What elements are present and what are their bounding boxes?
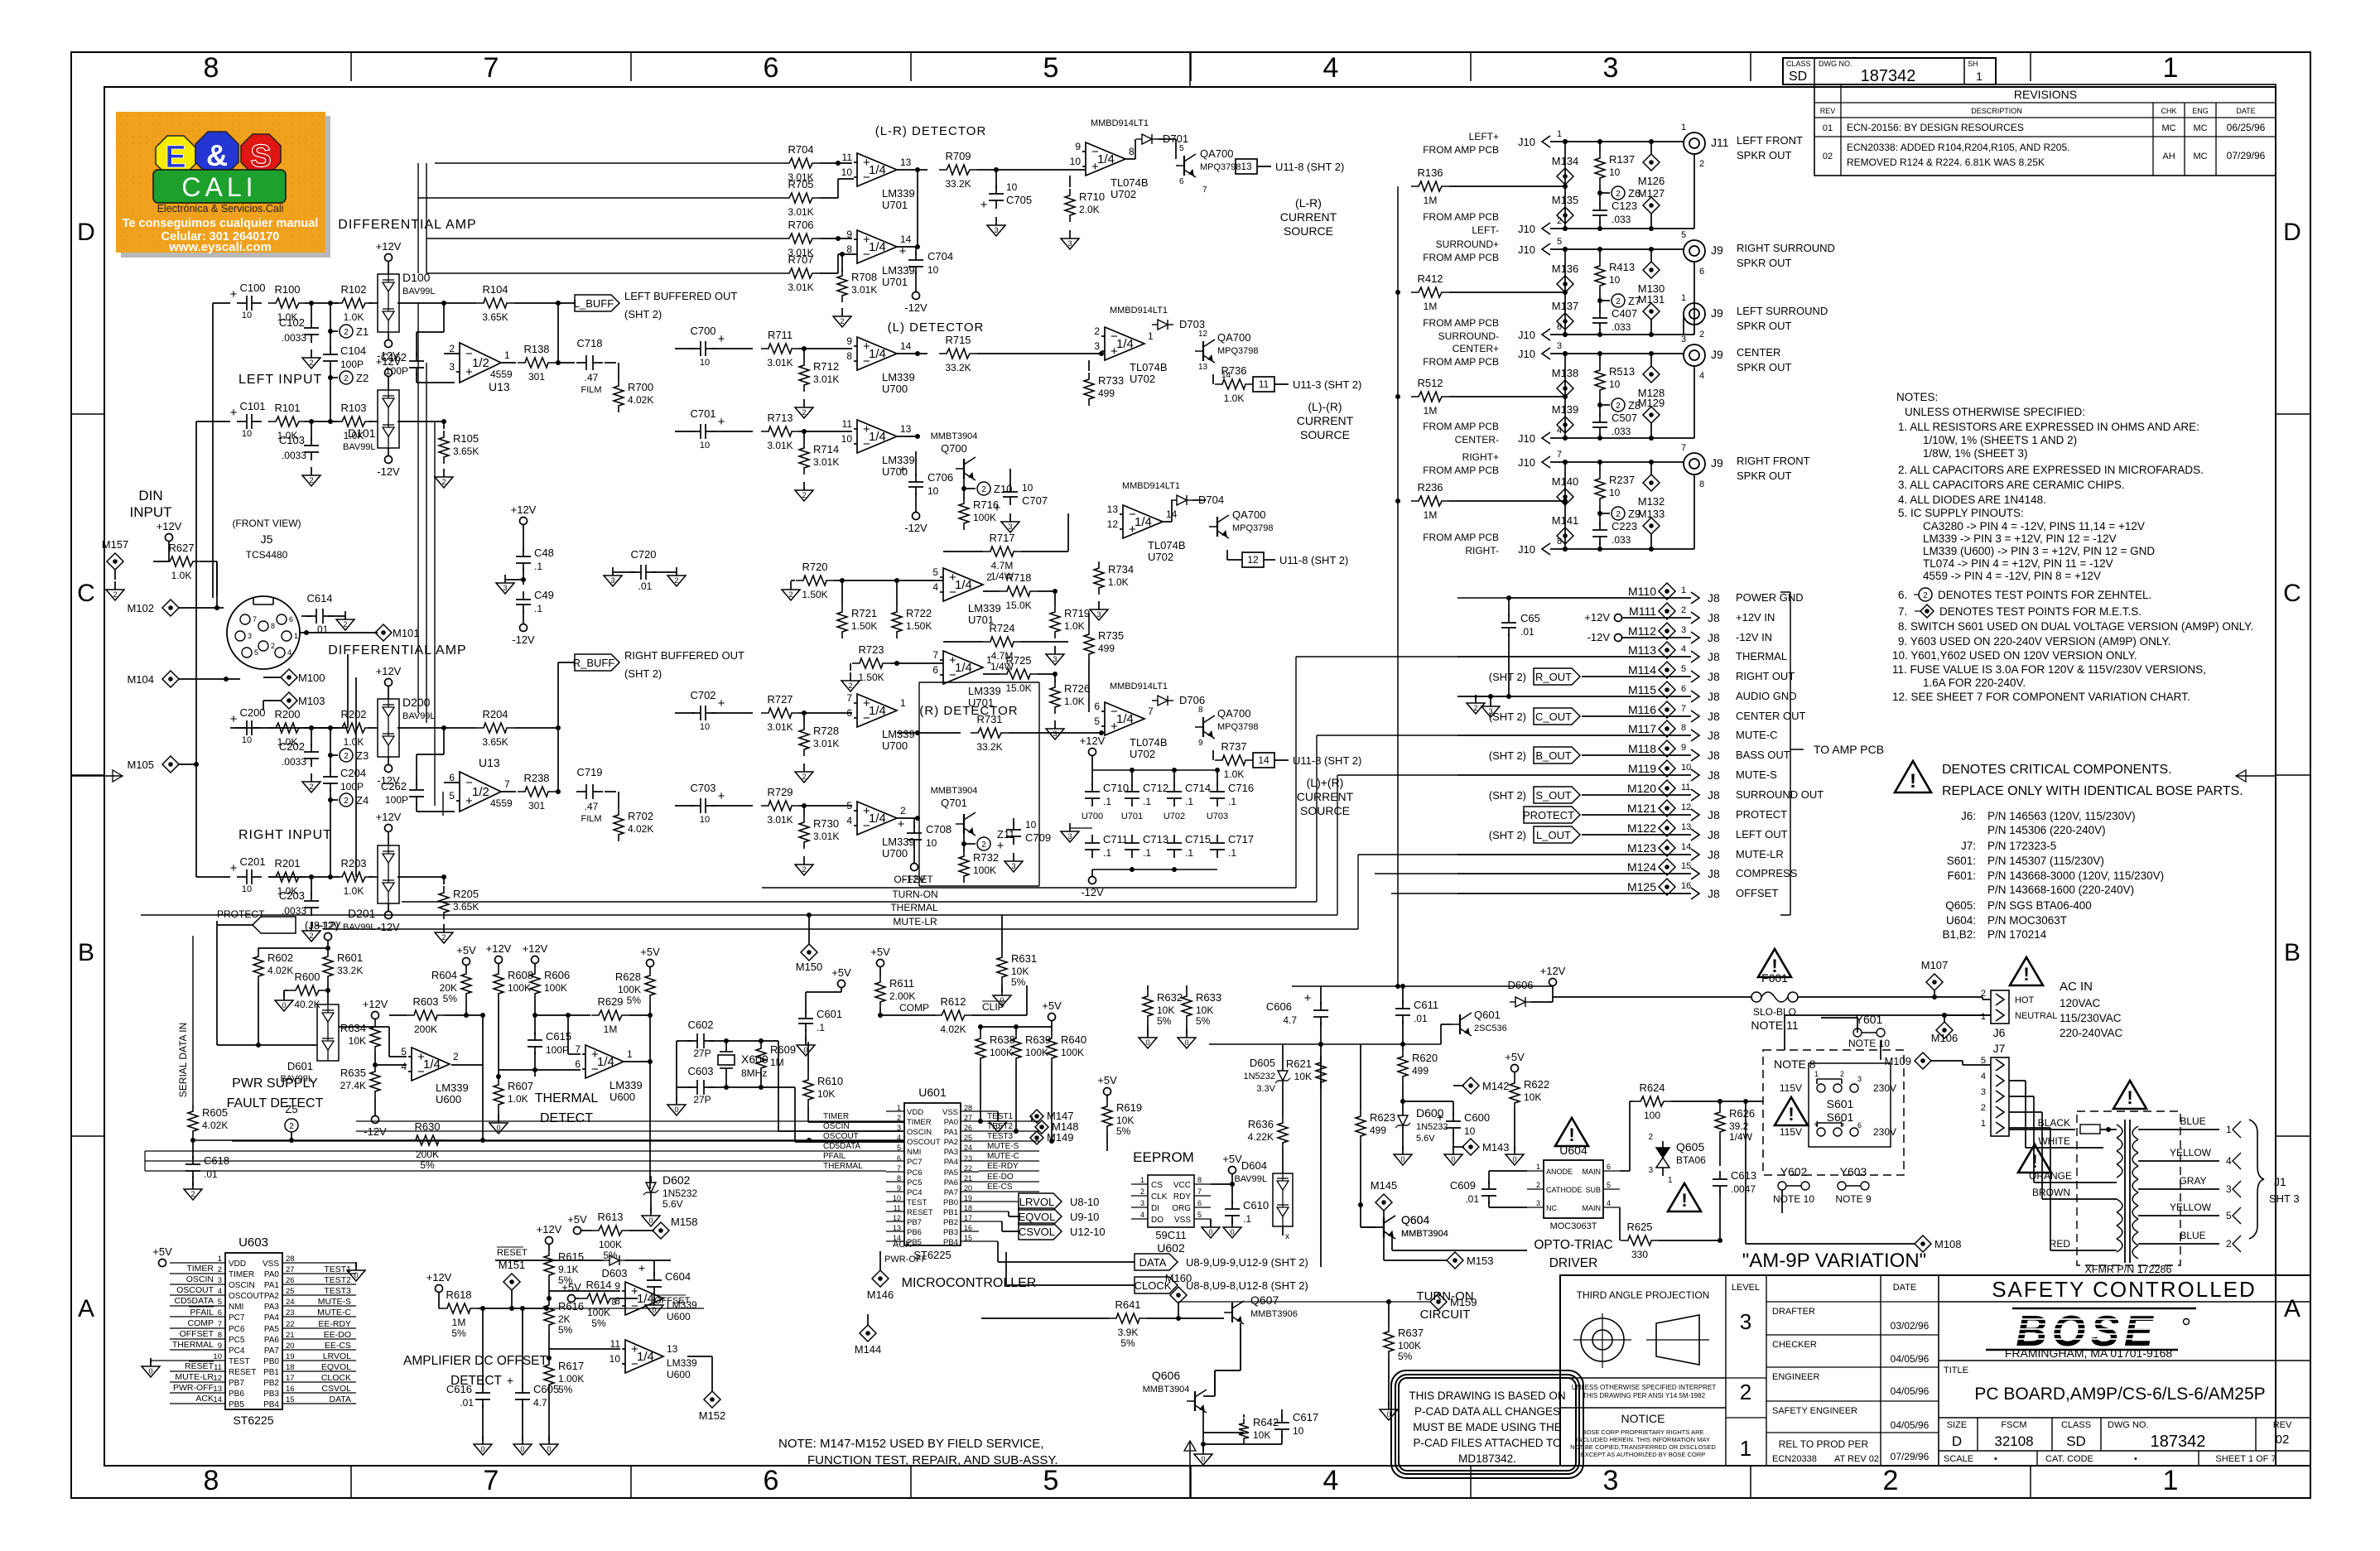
svg-text:OSCOUT: OSCOUT: [176, 1285, 214, 1295]
svg-text:9: 9: [846, 335, 852, 347]
svg-text:C701: C701: [690, 407, 715, 420]
capacitor C103: [279, 421, 319, 461]
svg-text:8: 8: [611, 1298, 616, 1308]
svg-text:PB7: PB7: [229, 1379, 244, 1388]
svg-text:10: 10: [1293, 1425, 1304, 1437]
svg-text:D605: D605: [1250, 1057, 1275, 1069]
svg-text:M136: M136: [1552, 263, 1579, 275]
svg-text:.1: .1: [534, 603, 542, 614]
svg-text:7: 7: [484, 1465, 499, 1496]
svg-text:.01: .01: [1414, 1013, 1428, 1024]
svg-text:M133: M133: [1638, 508, 1665, 520]
resistor R716: [959, 489, 999, 530]
svg-text:S_OUT: S_OUT: [1535, 789, 1571, 802]
svg-text:+12V: +12V: [157, 520, 182, 532]
resistor R724: [943, 622, 1068, 672]
svg-text:PC7: PC7: [907, 1158, 922, 1167]
svg-text:C507: C507: [1612, 412, 1637, 424]
svg-text:R609: R609: [770, 1043, 796, 1056]
svg-text:+12V IN: +12V IN: [1736, 611, 1775, 624]
svg-text:22: 22: [286, 1320, 295, 1329]
svg-text:&: &: [206, 138, 228, 172]
svg-text:TL074 -> PIN 4 = +12V, PIN 11: TL074 -> PIN 4 = +12V, PIN 11 = -12V: [1923, 557, 2113, 570]
svg-text:2. ALL CAPACITORS ARE EXPRESSE: 2. ALL CAPACITORS ARE EXPRESSED IN MICRO…: [1898, 464, 2204, 476]
svg-text:LEFT BUFFERED OUT: LEFT BUFFERED OUT: [624, 290, 737, 302]
svg-text:TIMER: TIMER: [186, 1264, 214, 1274]
svg-text:R_BUFF: R_BUFF: [573, 657, 615, 669]
svg-text:2: 2: [802, 865, 806, 874]
svg-text:16: 16: [964, 1224, 972, 1232]
ground at U603 TEST: [142, 1358, 170, 1377]
svg-text:EEPROM: EEPROM: [1133, 1149, 1194, 1165]
svg-text:+12V: +12V: [1540, 965, 1566, 977]
capacitor C700: [675, 325, 753, 368]
svg-text:1: 1: [897, 1104, 901, 1112]
resistor R615: [544, 1249, 584, 1301]
svg-text:10K: 10K: [1116, 1115, 1134, 1126]
svg-text:200K: 200K: [416, 1149, 439, 1160]
wire R412 to rows: [1563, 247, 1568, 337]
svg-text:M120: M120: [1627, 782, 1656, 795]
capacitor C613: [1713, 1169, 1756, 1240]
svg-text:J7: J7: [1993, 1042, 2006, 1055]
resistor R709: [918, 150, 1086, 190]
svg-text:CATHODE: CATHODE: [1546, 1186, 1582, 1194]
svg-text:8: 8: [271, 622, 275, 630]
wires S601 risers: [1821, 1018, 1881, 1060]
capacitor C712: [1125, 770, 1168, 807]
svg-text:R412: R412: [1417, 272, 1443, 285]
label feed RIGHT FRONT: [1423, 451, 1499, 556]
svg-text:CALI: CALI: [181, 172, 257, 202]
svg-text:CSVOL: CSVOL: [321, 1384, 351, 1394]
svg-text:J10: J10: [1518, 456, 1535, 469]
net flag PROTECT to J8: [1523, 807, 1580, 823]
svg-text:SAFETY ENGINEER: SAFETY ENGINEER: [1772, 1406, 1857, 1416]
svg-text:M138: M138: [1552, 367, 1579, 379]
test point M134: [1552, 155, 1579, 185]
svg-text:3: 3: [1981, 1087, 1986, 1097]
resistor R602: [253, 948, 293, 1048]
svg-text:BTA06: BTA06: [1676, 1154, 1706, 1166]
svg-text:CA3280 -> PIN 4 = -12V, PINS 1: CA3280 -> PIN 4 = -12V, PINS 11,14 = +12…: [1923, 520, 2145, 532]
svg-text:0: 0: [547, 1445, 551, 1453]
svg-text:DWG NO.: DWG NO.: [2108, 1420, 2149, 1430]
svg-text:5%: 5%: [443, 993, 458, 1004]
svg-text:PA7: PA7: [264, 1346, 280, 1356]
label TURN-ON CIRCUIT: [1416, 1289, 1473, 1322]
svg-text:LEFT+: LEFT+: [1469, 131, 1499, 142]
svg-text:12: 12: [1681, 802, 1691, 812]
net flag S_OUT to J8: [1489, 787, 1580, 803]
svg-text:TO AMP PCB: TO AMP PCB: [1814, 743, 1884, 756]
label OFFSET at R618: [547, 1295, 704, 1308]
svg-text:100K: 100K: [973, 865, 996, 876]
wires AC area: [1720, 1099, 1763, 1244]
svg-text:+: +: [718, 415, 725, 429]
svg-text:23: 23: [286, 1308, 295, 1317]
svg-text:R627: R627: [168, 542, 194, 554]
svg-text:U702: U702: [1164, 812, 1185, 821]
svg-text:R708: R708: [851, 271, 877, 283]
jumper Y601: [1848, 1013, 1890, 1049]
svg-text:PWR-OFF: PWR-OFF: [173, 1383, 214, 1393]
svg-text:D: D: [1952, 1433, 1962, 1449]
svg-text:4.7: 4.7: [1283, 1014, 1297, 1026]
svg-text:1/4: 1/4: [597, 1055, 614, 1069]
svg-text:FAULT DETECT: FAULT DETECT: [227, 1096, 324, 1110]
svg-text:9: 9: [897, 1184, 901, 1192]
svg-text:1/2: 1/2: [472, 785, 489, 799]
svg-text:+5V: +5V: [152, 1245, 172, 1258]
svg-text:COMP: COMP: [899, 1002, 929, 1014]
svg-text:1N5232: 1N5232: [1243, 1072, 1275, 1081]
capacitor C609: [1450, 1171, 1527, 1207]
svg-text:100K: 100K: [1025, 1047, 1048, 1058]
notice cell: [1570, 1412, 1716, 1458]
svg-text:3: 3: [1740, 1309, 1751, 1334]
connector J8 pin 16 OFFSET: [1457, 879, 1778, 900]
zener D605: [1243, 1044, 1290, 1116]
comparator U701 A: [841, 152, 915, 211]
svg-text:FUNCTION TEST, REPAIR, AND SUB: FUNCTION TEST, REPAIR, AND SUB-ASSY.: [807, 1453, 1058, 1467]
svg-text:5: 5: [401, 1046, 407, 1057]
svg-text:3.01K: 3.01K: [813, 831, 839, 842]
fuse F601: [1553, 971, 1983, 1032]
svg-text:ENG: ENG: [2192, 107, 2209, 115]
svg-text:5: 5: [1043, 52, 1059, 84]
capacitor C708: [898, 817, 952, 885]
svg-text:D703: D703: [1179, 318, 1205, 330]
resistor R636: [1248, 1116, 1288, 1173]
diode D100: [378, 271, 436, 332]
svg-text:!: !: [1910, 770, 1916, 792]
+5V at U602: [1211, 1153, 1242, 1187]
+12V at D100: [376, 240, 402, 274]
resistor R705: [782, 178, 854, 218]
svg-text:1/4: 1/4: [1135, 515, 1152, 529]
svg-text:MPQ3798: MPQ3798: [1200, 162, 1241, 172]
resistor R617: [540, 1358, 584, 1455]
svg-text:04/05/96: 04/05/96: [1891, 1385, 1930, 1397]
svg-text:3: 3: [1096, 610, 1101, 619]
svg-text:FILM: FILM: [581, 385, 601, 395]
svg-text:C717: C717: [1228, 833, 1254, 845]
svg-text:J5: J5: [261, 532, 273, 546]
svg-text:5%: 5%: [591, 1317, 606, 1329]
capacitor C717: [1210, 833, 1254, 859]
svg-text:B1,B2:: B1,B2:: [1942, 928, 1976, 941]
svg-text:Q605:: Q605:: [1945, 899, 1976, 912]
svg-text:6: 6: [764, 52, 779, 84]
test point M148: [1035, 1120, 1079, 1134]
test point M135: [1552, 194, 1579, 224]
svg-text:C609: C609: [1450, 1179, 1476, 1192]
svg-text:+: +: [718, 789, 725, 803]
svg-text:XFMR P/N 172286: XFMR P/N 172286: [2085, 1264, 2172, 1275]
svg-text:PA1: PA1: [944, 1128, 958, 1137]
transistor Q607: [1224, 1293, 1298, 1324]
svg-text:J6:: J6:: [1961, 810, 1976, 822]
resistor R704: [782, 143, 852, 183]
svg-text:J8: J8: [1708, 670, 1720, 683]
svg-text:10: 10: [1070, 156, 1082, 167]
svg-text:8: 8: [1197, 1176, 1202, 1184]
svg-text:R736: R736: [1221, 364, 1246, 377]
capacitor C602: [677, 1019, 729, 1059]
svg-text:LM339: LM339: [882, 187, 915, 200]
svg-text:J8: J8: [1708, 749, 1720, 762]
svg-text:12: 12: [1107, 518, 1119, 530]
svg-text:R238: R238: [523, 772, 549, 784]
svg-text:15: 15: [286, 1395, 295, 1404]
wire osc to U601: [726, 1038, 904, 1142]
svg-text:LEFT INPUT: LEFT INPUT: [238, 373, 322, 387]
svg-text:.1: .1: [1243, 1213, 1251, 1225]
svg-text:6: 6: [1681, 684, 1686, 694]
-12V at D100: [377, 332, 400, 362]
svg-text:PC6: PC6: [907, 1168, 922, 1178]
svg-text:R640: R640: [1061, 1033, 1086, 1046]
svg-text:13: 13: [900, 423, 912, 435]
svg-text:2: 2: [981, 485, 986, 494]
svg-text:RIGHT SURROUND: RIGHT SURROUND: [1737, 242, 1835, 254]
svg-text:32108: 32108: [1994, 1433, 2033, 1449]
net flag L_OUT to J8: [1489, 826, 1580, 843]
svg-text:A: A: [78, 1295, 94, 1322]
svg-text:2: 2: [309, 932, 313, 940]
transistor QA700 (L): [1195, 330, 1259, 380]
capacitor C200: [230, 706, 266, 745]
svg-text:0: 0: [648, 1216, 653, 1225]
svg-text:(SHT 2): (SHT 2): [1489, 749, 1526, 762]
net flag CLOCK: [1006, 1252, 1308, 1293]
svg-text:C123: C123: [1612, 200, 1637, 212]
+12V feed at J8: [1584, 611, 1621, 624]
svg-text:Z1: Z1: [356, 325, 369, 338]
svg-text:+12V: +12V: [511, 503, 537, 516]
svg-text:REPLACE ONLY WITH IDENTICAL BO: REPLACE ONLY WITH IDENTICAL BOSE PARTS.: [1942, 784, 2243, 798]
net flag C_OUT to J8: [1489, 708, 1580, 725]
svg-text:1N5232: 1N5232: [662, 1187, 697, 1199]
svg-text:C201: C201: [239, 855, 265, 868]
svg-text:10: 10: [1464, 1125, 1476, 1137]
resistor R640: [1047, 1027, 1086, 1144]
svg-text:CSVOL: CSVOL: [1019, 1226, 1055, 1238]
svg-text:C719: C719: [576, 766, 602, 778]
warning triangle at U604: [1555, 1118, 1588, 1146]
test point M127: [1638, 187, 1665, 229]
svg-text:RESET: RESET: [185, 1361, 214, 1371]
notes text block: [1892, 391, 2253, 703]
zener D600: [1394, 1101, 1448, 1165]
svg-text:CIRCUIT: CIRCUIT: [1420, 1308, 1471, 1322]
svg-text:PB1: PB1: [943, 1208, 958, 1217]
wire DIN to inputs: [196, 303, 356, 877]
svg-text:+: +: [230, 406, 238, 420]
svg-text:TEST2: TEST2: [324, 1275, 351, 1285]
svg-text:10: 10: [1609, 274, 1621, 286]
svg-text:C407: C407: [1612, 307, 1637, 320]
svg-text:4: 4: [2226, 1155, 2232, 1167]
svg-text:10: 10: [700, 441, 710, 450]
svg-text:4.7: 4.7: [533, 1397, 547, 1409]
capacitor C702: [675, 689, 753, 732]
svg-text:1.0K: 1.0K: [1108, 576, 1129, 588]
svg-text:THERMAL: THERMAL: [1736, 650, 1787, 662]
svg-text:U702: U702: [1111, 188, 1136, 200]
svg-text:R636: R636: [1248, 1118, 1274, 1130]
svg-text:10: 10: [1022, 482, 1033, 494]
svg-text:18: 18: [286, 1363, 295, 1372]
resistor R713: [761, 412, 852, 451]
svg-text:M125: M125: [1627, 880, 1656, 894]
svg-text:-12V: -12V: [377, 921, 400, 933]
svg-text:0: 0: [1208, 1228, 1212, 1236]
comparator U700 A: [846, 335, 914, 395]
svg-text:15.0K: 15.0K: [1005, 682, 1031, 694]
svg-text:3: 3: [1094, 340, 1100, 352]
svg-text:3.01K: 3.01K: [813, 373, 839, 385]
svg-text:301: 301: [528, 371, 545, 383]
svg-text:U700: U700: [1082, 812, 1103, 821]
svg-text:J10: J10: [1518, 329, 1535, 341]
svg-text:PB4: PB4: [943, 1238, 958, 1247]
svg-text:11: 11: [1681, 783, 1690, 792]
svg-text:J9: J9: [1711, 456, 1723, 470]
svg-text:NOTE: M147-M152 USED BY FIELD: NOTE: M147-M152 USED BY FIELD SERVICE,: [778, 1437, 1043, 1451]
svg-text:10: 10: [841, 166, 853, 178]
svg-text:PA4: PA4: [944, 1158, 958, 1167]
svg-text:R731: R731: [976, 713, 1002, 725]
svg-text:1: 1: [218, 1255, 222, 1264]
P-CAD notice rounded box: [1391, 1370, 1583, 1478]
transformer secondary GRAY 3: [2138, 1175, 2241, 1197]
capacitor C610: [1223, 1184, 1269, 1238]
test point M150: [796, 913, 823, 973]
svg-text:REV: REV: [1820, 107, 1836, 115]
svg-text:4: 4: [897, 1134, 901, 1142]
capacitor C100: [230, 282, 266, 320]
svg-text:TL074B: TL074B: [1130, 361, 1168, 373]
wires from buses to J8 rows: [1296, 595, 1511, 929]
svg-text:PROTECT: PROTECT: [1523, 809, 1574, 821]
svg-text:P/N 143668-1600 (220-240V): P/N 143668-1600 (220-240V): [1987, 884, 2134, 896]
svg-text:.1: .1: [1185, 847, 1193, 859]
svg-text:1M: 1M: [452, 1317, 466, 1328]
capacitor bank rail top: [1092, 768, 1220, 773]
test point M102: [127, 600, 224, 616]
svg-text:1/4: 1/4: [1116, 337, 1134, 351]
svg-text:YELLOW: YELLOW: [2170, 1147, 2212, 1158]
net flag L_BUFF: [574, 290, 738, 320]
warning triangle above transformer: [2113, 1081, 2146, 1109]
capacitor C604: [638, 1260, 691, 1316]
svg-text:10K: 10K: [1011, 966, 1029, 977]
resistor R638: [976, 1027, 1015, 1124]
svg-text:7: 7: [1197, 1187, 1202, 1196]
svg-text:LEFT FRONT: LEFT FRONT: [1737, 134, 1803, 147]
svg-text:M124: M124: [1627, 860, 1656, 874]
svg-text:2: 2: [1840, 1070, 1844, 1078]
svg-text:OSCIN: OSCIN: [907, 1128, 932, 1137]
connector J6: [1981, 989, 2057, 1039]
svg-text:CLK: CLK: [1151, 1192, 1168, 1202]
svg-text:.0033: .0033: [282, 450, 306, 461]
resistor R203: [335, 857, 373, 897]
svg-text:3: 3: [218, 1276, 222, 1285]
svg-text:C610: C610: [1243, 1199, 1269, 1211]
note M147-M152 text: [778, 1437, 1058, 1467]
svg-text:J8: J8: [1708, 808, 1720, 821]
wire right input row3: [230, 725, 561, 730]
svg-text:RESET: RESET: [229, 1368, 256, 1377]
svg-text:"AM-9P VARIATION": "AM-9P VARIATION": [1742, 1250, 1926, 1272]
svg-text:EE-RDY: EE-RDY: [987, 1162, 1019, 1171]
svg-text:C706: C706: [927, 471, 953, 484]
svg-text:BASS OUT: BASS OUT: [1736, 749, 1790, 761]
svg-text:DRAFTER: DRAFTER: [1772, 1307, 1815, 1317]
svg-text:AH: AH: [2162, 152, 2175, 161]
svg-text:C617: C617: [1293, 1411, 1318, 1423]
svg-text:5: 5: [1557, 237, 1562, 247]
svg-text:EE-RDY: EE-RDY: [318, 1319, 351, 1329]
svg-text:R614: R614: [585, 1279, 611, 1291]
svg-text:M144: M144: [855, 1343, 882, 1356]
svg-text:499: 499: [1370, 1125, 1386, 1136]
svg-text:R104: R104: [482, 283, 508, 296]
+12V at cap bank: [1080, 735, 1106, 770]
resistor R720: [782, 561, 943, 600]
svg-text:FROM AMP PCB: FROM AMP PCB: [1423, 144, 1499, 156]
svg-text:R201: R201: [274, 857, 300, 869]
svg-text:.01: .01: [204, 1168, 218, 1180]
svg-text:13: 13: [900, 157, 912, 168]
svg-text:R723: R723: [858, 643, 884, 656]
svg-text:5: 5: [2226, 1210, 2232, 1221]
svg-text:(SHT 2): (SHT 2): [1489, 710, 1526, 723]
svg-text:REMOVED R124 & R224. 6.81K WAS: REMOVED R124 & R224. 6.81K WAS 8.25K: [1847, 157, 2045, 168]
wire left input row1: [213, 301, 575, 306]
svg-text:M137: M137: [1552, 300, 1579, 312]
capacitor C605: [507, 1308, 559, 1455]
svg-text:SHT 3: SHT 3: [2269, 1192, 2300, 1205]
svg-text:R602: R602: [267, 951, 293, 964]
capacitor C614: [301, 592, 354, 635]
svg-text:4.02K: 4.02K: [628, 394, 653, 406]
svg-text:U701: U701: [882, 199, 908, 211]
resistor R634: [340, 998, 388, 1067]
transistor QA700 (L+R): [1209, 508, 1274, 538]
svg-text:(FRONT VIEW): (FRONT VIEW): [232, 518, 301, 529]
labels U700 U701 U702 U703: [1082, 812, 1228, 821]
svg-text:PC6: PC6: [229, 1325, 245, 1334]
svg-text:187342: 187342: [2151, 1433, 2206, 1451]
resistor R717: [943, 513, 1068, 582]
svg-text:26: 26: [286, 1276, 295, 1285]
svg-text:MUTE-LR: MUTE-LR: [893, 916, 937, 927]
bus label TURN-ON: [402, 889, 1317, 902]
svg-text:THERMAL: THERMAL: [172, 1340, 214, 1350]
svg-text:L_BUFF: L_BUFF: [574, 297, 614, 310]
resistor R612: [934, 995, 972, 1035]
resistor R726: [1046, 674, 1090, 739]
svg-text:3: 3: [248, 632, 252, 640]
svg-text:7: 7: [846, 692, 852, 704]
svg-text:F601:: F601:: [1947, 869, 1976, 882]
warning triangle left of S601: [1775, 1097, 1808, 1125]
svg-text:R641: R641: [1115, 1298, 1140, 1311]
